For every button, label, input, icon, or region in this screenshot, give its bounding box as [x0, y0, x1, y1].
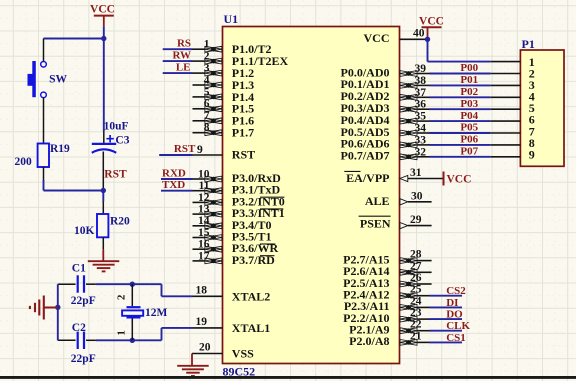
pin 29 (PSEN): [359, 214, 432, 231]
pin 35 (P0.4/AD4): [341, 111, 430, 127]
svg-text:13: 13: [198, 204, 210, 216]
svg-text:VCC: VCC: [90, 3, 115, 15]
svg-text:C3: C3: [115, 135, 129, 147]
svg-text:3: 3: [204, 63, 210, 75]
svg-text:7: 7: [204, 110, 210, 122]
svg-text:VSS: VSS: [232, 347, 254, 361]
svg-text:9: 9: [529, 148, 535, 162]
pin 14 (P3.4): [193, 215, 272, 232]
net label DO: [446, 309, 463, 321]
svg-text:C2: C2: [72, 322, 86, 334]
pin 37 (P0.2/AD2): [341, 87, 430, 103]
svg-text:RW: RW: [172, 50, 191, 62]
svg-text:SW: SW: [49, 73, 67, 85]
wire net stub DO: [430, 318, 463, 320]
crystal pin number 1: [115, 330, 127, 336]
pin 28 (P2.7/A15): [343, 249, 431, 267]
capacitor C1: [58, 275, 96, 292]
svg-text:CS1: CS1: [446, 332, 466, 344]
svg-text:CS2: CS2: [446, 285, 466, 297]
ground below VSS: [177, 366, 209, 376]
wire net P06: [430, 144, 491, 146]
svg-text:RS: RS: [177, 38, 191, 50]
svg-text:10: 10: [198, 168, 210, 180]
svg-text:21: 21: [410, 330, 422, 342]
pin 3 (P1.2): [193, 63, 255, 81]
svg-text:P03: P03: [460, 98, 478, 110]
svg-text:22pF: 22pF: [71, 295, 96, 307]
svg-text:26: 26: [410, 272, 422, 284]
wire net stub CS2: [430, 295, 463, 297]
svg-text:R19: R19: [50, 143, 70, 155]
sheet border line (bottom): [0, 376, 576, 379]
switch SW: [28, 61, 47, 98]
svg-text:P1: P1: [522, 37, 535, 51]
svg-text:11: 11: [199, 180, 210, 192]
wire R20 to ground: [102, 237, 104, 261]
svg-text:VCC: VCC: [447, 174, 472, 186]
svg-text:TXD: TXD: [162, 179, 185, 191]
svg-text:14: 14: [198, 215, 210, 227]
pin 22 (P2.1/A9): [349, 319, 429, 337]
svg-text:5: 5: [204, 86, 210, 98]
pin 24 (P2.3/A11): [344, 295, 430, 313]
pin 11 (P3.1): [193, 180, 281, 197]
svg-text:CLK: CLK: [446, 320, 470, 332]
net label P04: [460, 110, 478, 122]
svg-text:2: 2: [116, 294, 128, 300]
wire net RS: [163, 48, 193, 50]
junction RST node: [101, 188, 106, 193]
wire R19 to RST node: [44, 167, 104, 191]
svg-text:30: 30: [411, 190, 423, 202]
svg-text:P06: P06: [460, 134, 478, 146]
IC U1 89C52 body: [223, 27, 400, 364]
wire down to switch: [43, 39, 45, 62]
svg-text:1: 1: [115, 330, 127, 336]
wire net P05: [430, 132, 491, 134]
connector P1 pin 2: [491, 67, 535, 81]
wire C1 row to XTAL2: [96, 284, 193, 296]
svg-text:LE: LE: [176, 62, 191, 74]
capacitor C2: [58, 332, 96, 349]
svg-text:37: 37: [415, 87, 427, 99]
pin 32 (P0.7/AD7): [341, 146, 430, 162]
pin 6 (P1.5): [193, 98, 255, 116]
wire net P01: [430, 84, 491, 86]
connector P1 pin 9: [491, 148, 535, 162]
svg-text:15: 15: [198, 227, 210, 239]
connector P1 pin 5: [491, 101, 535, 115]
pin 19 (XTAL1): [193, 316, 271, 335]
wire VCC to C3: [103, 39, 105, 144]
svg-text:VCC: VCC: [419, 15, 444, 27]
svg-text:PSEN: PSEN: [360, 217, 391, 231]
capacitor C3: [92, 135, 116, 153]
svg-text:P1.7: P1.7: [232, 126, 254, 140]
pin 26 (P2.5/A13): [343, 272, 431, 290]
net label RST (left): [104, 169, 127, 181]
net label TXD: [162, 179, 185, 191]
pin 27 (P2.6/A14): [343, 260, 431, 278]
junction pin40/VCC: [425, 37, 430, 42]
wire horizontal VCC branch: [44, 38, 104, 40]
svg-text:P2.0/A8: P2.0/A8: [349, 334, 389, 348]
pin 16 (P3.6): [193, 239, 279, 256]
svg-text:RXD: RXD: [162, 167, 186, 179]
svg-text:U1: U1: [224, 12, 239, 26]
net label P05: [460, 122, 478, 134]
ground below R20: [88, 261, 120, 271]
wire net P07: [430, 156, 491, 158]
power symbol VCC (pin 40): [419, 15, 444, 36]
pin 4 (P1.3): [193, 74, 255, 92]
pin 30 (ALE): [365, 190, 432, 208]
pin 2 (P1.1/T2EX): [193, 51, 289, 69]
svg-text:P00: P00: [460, 62, 478, 74]
svg-text:20: 20: [199, 342, 211, 354]
net label P06: [460, 134, 478, 146]
svg-text:24: 24: [410, 295, 422, 307]
pin 8 (P1.7): [193, 122, 255, 140]
pin 25 (P2.4/A12): [343, 284, 429, 302]
wire net RW: [163, 60, 193, 62]
svg-text:EA/VPP: EA/VPP: [346, 171, 389, 185]
label C3: [115, 135, 129, 147]
svg-text:XTAL1: XTAL1: [232, 321, 270, 335]
svg-text:25: 25: [410, 284, 422, 296]
part type 89C52: [223, 365, 256, 379]
value 22pF (C2): [71, 353, 96, 365]
value 10K: [74, 225, 95, 237]
svg-text:31: 31: [410, 167, 422, 179]
net label RXD: [162, 167, 186, 179]
value 12M: [145, 307, 168, 319]
connector P1 pin 1: [491, 55, 535, 69]
pin 9 (RST): [193, 144, 256, 162]
svg-text:12M: 12M: [145, 307, 168, 319]
svg-text:4: 4: [204, 74, 210, 86]
svg-text:P04: P04: [460, 110, 478, 122]
resistor R19: [38, 144, 49, 168]
svg-text:C1: C1: [72, 263, 86, 275]
pin 33 (P0.6/AD6): [341, 134, 430, 150]
svg-text:16: 16: [198, 239, 210, 251]
svg-text:6: 6: [204, 98, 210, 110]
wire left vertical C1-C2: [57, 284, 59, 340]
svg-text:18: 18: [196, 284, 208, 296]
svg-text:39: 39: [415, 63, 427, 75]
svg-text:DI: DI: [446, 297, 458, 309]
svg-text:40: 40: [413, 28, 425, 40]
net label P00: [460, 62, 478, 74]
svg-text:38: 38: [415, 75, 427, 87]
wire switch to R19: [43, 98, 45, 144]
svg-text:R20: R20: [110, 216, 130, 228]
power symbol VCC (top left): [90, 3, 115, 26]
wire net stub CS1: [430, 341, 463, 343]
pin 1 (P1.0/T2): [193, 39, 272, 57]
svg-text:10uF: 10uF: [104, 121, 129, 133]
wire net P02: [430, 96, 491, 98]
connector P1: [520, 50, 564, 166]
svg-text:33: 33: [415, 134, 427, 146]
svg-text:P07: P07: [460, 146, 478, 158]
svg-text:DO: DO: [446, 309, 463, 321]
svg-text:27: 27: [410, 260, 422, 272]
net label DI: [446, 297, 458, 309]
connector P1 pin 4: [491, 90, 535, 104]
pin 20 (VSS): [192, 342, 254, 361]
pin 13 (P3.3): [193, 204, 285, 221]
svg-text:9: 9: [197, 144, 203, 156]
connector P1 pin 6: [491, 113, 535, 127]
resistor R20: [97, 214, 108, 237]
net label P03: [460, 98, 478, 110]
net label CLK: [446, 320, 470, 332]
net label RST: [174, 143, 196, 155]
svg-text:ALE: ALE: [365, 194, 390, 208]
net label P07: [460, 146, 478, 158]
pin 39 (P0.0/AD0): [341, 63, 430, 79]
svg-text:P01: P01: [460, 74, 478, 86]
wire VSS to ground: [191, 354, 193, 366]
svg-text:10K: 10K: [74, 225, 95, 237]
svg-text:19: 19: [196, 316, 208, 328]
pin 21 (P2.0/A8): [349, 330, 429, 348]
wire VCC stem (blue): [103, 26, 105, 38]
svg-text:XTAL2: XTAL2: [232, 290, 270, 304]
ground (left, rotated): [30, 296, 44, 320]
pin 31 (EA/VPP): [344, 167, 443, 185]
label C2: [72, 322, 86, 334]
svg-text:1: 1: [204, 39, 210, 51]
pin 12 (P3.2): [193, 192, 285, 209]
svg-text:36: 36: [415, 99, 427, 111]
svg-text:12: 12: [198, 192, 210, 204]
pin 38 (P0.1/AD1): [341, 75, 430, 91]
wire net TXD: [161, 190, 193, 192]
wire net P04: [430, 120, 491, 122]
pin 17 (P3.7): [193, 250, 276, 267]
wire net P00: [430, 73, 491, 75]
pin 18 (XTAL2): [193, 284, 271, 303]
svg-text:P3.7/RD: P3.7/RD: [232, 253, 275, 267]
wire C3 to RST node: [102, 152, 104, 191]
net label RW: [172, 50, 191, 62]
svg-text:P0.7/AD7: P0.7/AD7: [341, 149, 390, 163]
label C1: [72, 263, 86, 275]
svg-text:17: 17: [198, 250, 210, 262]
svg-text:32: 32: [415, 146, 427, 158]
net label CS2: [446, 285, 466, 297]
net label P02: [460, 86, 478, 98]
junction crystal top: [130, 282, 135, 287]
connector P1 pin 7: [491, 124, 535, 138]
svg-text:23: 23: [410, 307, 422, 319]
svg-text:22pF: 22pF: [71, 353, 96, 365]
svg-text:8: 8: [204, 122, 210, 134]
svg-text:RST: RST: [232, 148, 255, 162]
net label P01: [460, 74, 478, 86]
wire net stub CLK: [430, 330, 463, 332]
pin 23 (P2.2/A10): [343, 307, 429, 325]
junction crystal bottom: [130, 338, 135, 343]
svg-text:RST: RST: [104, 169, 127, 181]
wire VCC to P1 pin 1: [428, 37, 491, 62]
wire net RXD: [161, 178, 193, 180]
net label CS1: [446, 332, 466, 344]
designator P1: [522, 37, 535, 51]
junction at left ground tap: [55, 305, 60, 310]
label SW: [49, 73, 67, 85]
value 10uF: [104, 121, 129, 133]
pin 34 (P0.5/AD5): [341, 123, 430, 139]
net label RS: [177, 38, 191, 50]
wire C2 row to XTAL1: [96, 328, 193, 340]
value 200: [15, 156, 33, 168]
svg-text:35: 35: [415, 111, 427, 123]
wire net P03: [430, 108, 491, 110]
pin 36 (P0.3/AD3): [341, 99, 430, 115]
svg-text:VCC: VCC: [364, 31, 390, 45]
svg-text:200: 200: [15, 156, 33, 168]
svg-text:P05: P05: [460, 122, 478, 134]
svg-text:P02: P02: [460, 86, 478, 98]
label R19: [50, 143, 70, 155]
wire RST node to R20: [102, 191, 104, 215]
pin 10 (P3.0): [193, 168, 282, 185]
svg-text:22: 22: [410, 319, 422, 331]
wire net stub DI: [430, 306, 463, 308]
svg-text:2: 2: [204, 51, 210, 63]
wire net LE: [163, 72, 193, 74]
power symbol VCC at pin 31: [444, 172, 472, 186]
crystal Y1 12M: [122, 284, 143, 340]
designator U1: [224, 12, 239, 26]
wire ground stub: [44, 307, 58, 309]
pin 7 (P1.6): [193, 110, 255, 128]
value 22pF (C1): [71, 295, 96, 307]
wire net RST to pin 9: [159, 154, 192, 156]
junction at VCC branch: [101, 36, 106, 41]
net label LE: [176, 62, 191, 74]
svg-text:28: 28: [410, 249, 422, 261]
svg-text:RST: RST: [174, 143, 196, 155]
svg-text:34: 34: [415, 123, 427, 135]
pin 40 (VCC): [364, 28, 428, 45]
crystal pin number 2: [116, 294, 128, 300]
pin 5 (P1.4): [193, 86, 255, 104]
label R20: [110, 216, 130, 228]
connector P1 pin 8: [491, 136, 535, 150]
connector P1 pin 3: [491, 78, 535, 92]
pin 15 (P3.5): [193, 227, 272, 244]
svg-text:29: 29: [410, 214, 422, 226]
